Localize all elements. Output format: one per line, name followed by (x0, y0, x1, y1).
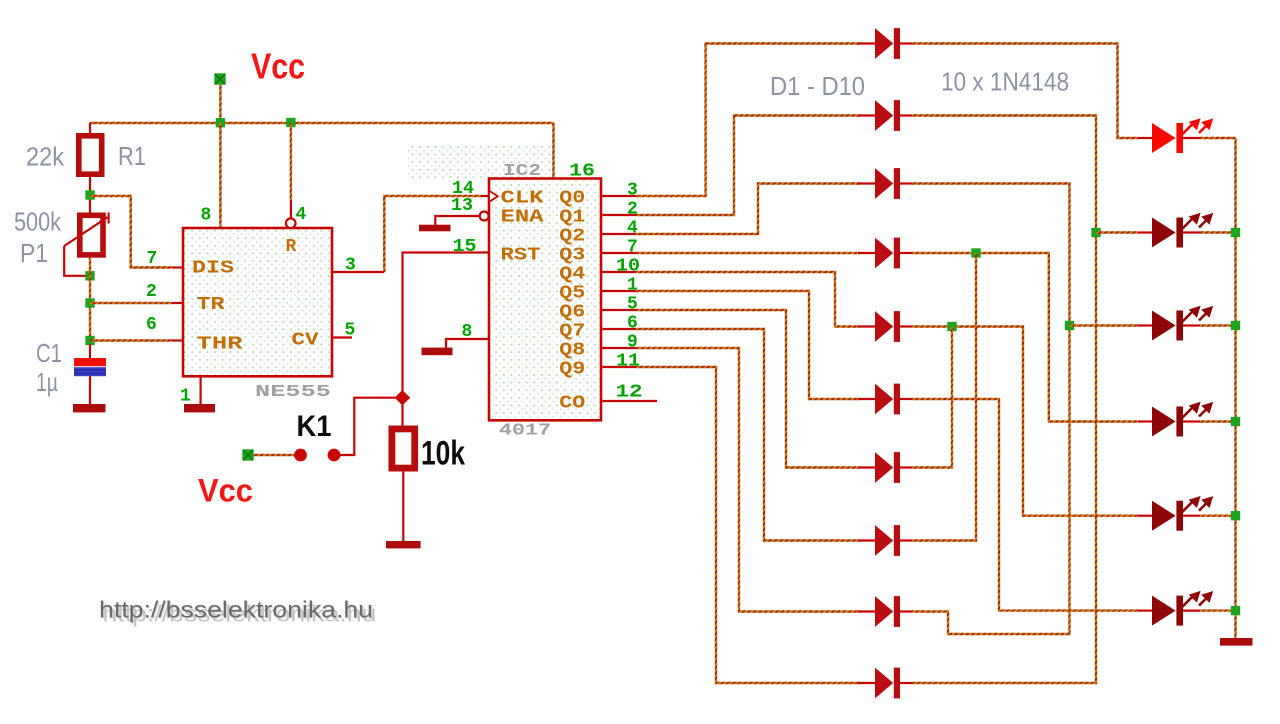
diode D10 cathode stub (900, 682, 912, 684)
wire P1 wiper to bottom node (64, 246, 86, 276)
svg-text:1µ: 1µ (36, 367, 58, 397)
wire C1 to ground (89, 376, 91, 404)
node junction bus LED2 row (1231, 228, 1240, 237)
wire K1 to RST junction (340, 398, 396, 455)
diode D10 anode stub (858, 682, 875, 684)
diode D1 cathode stub (900, 42, 912, 44)
svg-text:15: 15 (453, 237, 477, 257)
wire down to C1 plus plate (89, 344, 91, 358)
op 555 timer IC U1 box (183, 228, 332, 376)
svg-text:Q3: Q3 (559, 246, 585, 266)
diode D2 cathode stub (900, 114, 912, 116)
wire D5 to LED5 (912, 327, 1138, 516)
wire RST pin15 to junction and 10k (403, 253, 490, 427)
svg-text:4: 4 (627, 219, 638, 239)
wire Q6 to D7 (636, 310, 860, 468)
pin 13 inversion circle (4017 ENA) (480, 212, 489, 221)
node junction bus LED4 row (1231, 417, 1240, 426)
node junction LED3 riser (1065, 321, 1074, 330)
wire D3 and D9 to LED3 riser (912, 184, 1070, 635)
wire D1 to LED1 (912, 44, 1138, 139)
svg-text:R: R (286, 237, 297, 257)
svg-text:500k: 500k (14, 207, 62, 237)
wire TR pin2 red stub (172, 302, 183, 304)
LED2 cathode stub (1183, 231, 1200, 233)
svg-text:Q5: Q5 (559, 284, 585, 304)
diode D4 cathode stub (900, 252, 912, 254)
wire Q7 to D8 (636, 329, 860, 541)
wire LED4 cathode to bus (1200, 420, 1236, 422)
wire ENA pin13 to ground (435, 216, 479, 225)
svg-text:10k: 10k (421, 435, 465, 473)
LED4 cathode stub (1183, 420, 1200, 422)
svg-text:C1: C1 (36, 338, 62, 368)
diode D6 (875, 384, 900, 415)
wire LED1 cathode to bus (1200, 137, 1236, 139)
diode D8 cathode stub (900, 539, 912, 541)
pin 4 wire (555 reset) (290, 123, 292, 200)
svg-text:Vcc: Vcc (198, 473, 253, 509)
capacitor C1 top plate (74, 358, 106, 366)
pin stub Q2 (4017) (601, 233, 636, 235)
pin 8 wire (555 Vcc) (219, 123, 221, 228)
diode D9 (875, 596, 900, 627)
LED5 (1152, 496, 1213, 531)
wire Q2 to D3 (636, 184, 860, 235)
pin stub Q1 (4017) (601, 214, 636, 216)
svg-text:8: 8 (201, 206, 212, 226)
node junction TR row (85, 298, 94, 307)
diode D10 (875, 668, 900, 699)
pin stub Q4 (4017) (601, 271, 636, 273)
node junction D4/D8 row (971, 248, 980, 257)
LED3 anode stub (1138, 324, 1152, 326)
wire Q9 to D10 (636, 367, 860, 683)
wire THR pin6 horizontal (90, 339, 172, 341)
node junction bus LED3 row (1231, 321, 1240, 330)
wire LED5 cathode to bus (1200, 515, 1236, 517)
pin stub Q6 (4017) (601, 309, 636, 311)
wire 555 pin3 output (332, 271, 384, 273)
svg-text:Q4: Q4 (559, 265, 585, 285)
ground at LED bus (1220, 638, 1253, 646)
svg-text:DIS: DIS (192, 258, 234, 278)
node junction bus LED5 row (1231, 511, 1240, 520)
svg-text:Q2: Q2 (559, 227, 585, 247)
wire TR pin2 horizontal (90, 302, 172, 304)
node Vcc port (K1) (242, 449, 253, 460)
ground below 555 pin1 (184, 404, 215, 412)
LED2 anode stub (1138, 231, 1152, 233)
diode D7 (875, 452, 900, 483)
pin stub Q5 (4017) (601, 290, 636, 292)
wire Q3 to D4 (636, 252, 860, 254)
wire 555 output riser to 4017 CLK (384, 196, 481, 272)
wire 4017 pin8 to ground (446, 339, 489, 348)
diode D7 anode stub (858, 466, 875, 468)
pin stub Q9 (4017) (601, 366, 636, 368)
wire LED cathode ground bus (1234, 138, 1236, 638)
svg-text:12: 12 (616, 383, 643, 403)
diode D9 anode stub (858, 610, 875, 612)
wire D2 and D10 to LED2 riser (912, 116, 1096, 684)
diode D5 anode stub (858, 325, 875, 327)
node Vcc port (top) (214, 73, 225, 84)
diode D8 (875, 525, 900, 556)
wire 4017 pin16 riser from bus (552, 123, 554, 179)
svg-text:9: 9 (627, 333, 638, 353)
svg-text:10 x 1N4148: 10 x 1N4148 (941, 67, 1069, 97)
pin stub Q8 (4017) (601, 347, 636, 349)
diode D1 (875, 28, 900, 59)
svg-text:THR: THR (197, 335, 243, 355)
svg-text:Q6: Q6 (559, 303, 585, 323)
svg-text:CO: CO (559, 394, 585, 414)
diode D6 cathode stub (900, 398, 912, 400)
ground below C1 (73, 404, 106, 412)
wire node to DIS pin7 route (90, 196, 172, 268)
pin stub Q7 (4017) (601, 328, 636, 330)
svg-text:6: 6 (627, 314, 638, 334)
wire THR pin6 red stub (172, 339, 183, 341)
svg-text:http://bsselektronika.hu: http://bsselektronika.hu (99, 597, 373, 623)
LED1 (1152, 118, 1213, 153)
pin 14 clock chevron (4017) (489, 191, 498, 202)
wire LED6 cathode to bus (1200, 609, 1236, 611)
junction diamond RST node (395, 390, 411, 405)
node junction bus LED6 row (1231, 606, 1240, 615)
svg-text:CLK: CLK (501, 189, 544, 209)
wire CO pin12 stub (601, 400, 657, 402)
LED2 (1152, 213, 1213, 248)
wire Q8 to D9 (636, 348, 860, 612)
potentiometer P1 body (80, 215, 103, 255)
svg-text:4017: 4017 (499, 422, 551, 441)
capacitor C1 bottom plate (74, 367, 106, 376)
svg-text:D1 - D10: D1 - D10 (770, 71, 865, 101)
pin 4 inversion circle (555) (286, 218, 296, 228)
wire R1 bottom to node (89, 177, 91, 213)
wire Q0 to D1 (636, 44, 860, 197)
svg-text:5: 5 (627, 295, 638, 315)
diode D9 cathode stub (900, 610, 912, 612)
LED3 cathode stub (1183, 324, 1200, 326)
diode D1 anode stub (858, 42, 875, 44)
diode D2 anode stub (858, 114, 875, 116)
svg-text:6: 6 (146, 315, 157, 335)
pin 5 stub (555 CV) (332, 336, 352, 338)
diode D7 cathode stub (900, 466, 912, 468)
svg-text:13: 13 (451, 196, 473, 216)
node junction THR row (85, 336, 94, 345)
diode D3 (875, 168, 900, 199)
wire Q4 to D5 (636, 272, 860, 327)
svg-text:4: 4 (296, 205, 307, 225)
svg-text:3: 3 (627, 181, 638, 201)
diode D5 cathode stub (900, 325, 912, 327)
wire LED2 tap (1096, 231, 1138, 233)
wire Vcc bus horizontal (90, 122, 554, 124)
svg-text:TR: TR (197, 295, 225, 315)
svg-text:7: 7 (627, 238, 638, 258)
LED6 cathode stub (1183, 609, 1200, 611)
wire Q1 to D2 (636, 116, 860, 216)
svg-text:11: 11 (616, 352, 640, 372)
svg-text:Q0: Q0 (559, 189, 585, 209)
wire LED3 cathode to bus (1200, 324, 1236, 326)
wire Vcc port to K1 (254, 454, 295, 456)
switch K1 right contact (328, 449, 341, 462)
wire 555 pin1 to ground (200, 376, 202, 404)
LED5 anode stub (1138, 515, 1152, 517)
svg-text:2: 2 (627, 200, 638, 220)
svg-text:K1: K1 (297, 410, 332, 443)
svg-text:1: 1 (180, 387, 191, 407)
LED4 (1152, 402, 1213, 437)
diode D6 anode stub (858, 398, 875, 400)
ground below 10k (386, 541, 421, 548)
resistor R1 (79, 136, 102, 174)
wire D8 riser to D4 row (912, 253, 976, 541)
LED1 cathode stub (1183, 137, 1200, 139)
diode D3 anode stub (858, 182, 875, 184)
node junction below P1 (85, 271, 94, 280)
svg-text:P1: P1 (20, 238, 48, 268)
wire LED3 tap (1070, 324, 1139, 326)
LED6 anode stub (1138, 609, 1152, 611)
node junction bus / pin8 riser (216, 118, 225, 127)
LED4 anode stub (1138, 420, 1152, 422)
wire LED2 cathode to bus (1200, 231, 1236, 233)
wire R1 top stub (89, 123, 91, 133)
LED1 anode stub (1138, 137, 1152, 139)
diode D5 (875, 311, 900, 342)
wire left vertical P1 to C1 (89, 258, 91, 345)
wire D7 riser to D5 row (912, 327, 952, 468)
svg-text:NE555: NE555 (255, 383, 331, 402)
svg-text:RST: RST (501, 246, 541, 266)
diode D4 (875, 238, 900, 269)
wire Q5 to D6 (636, 291, 860, 399)
svg-text:Q1: Q1 (559, 208, 585, 228)
svg-text:R1: R1 (118, 141, 146, 171)
LED3 (1152, 306, 1213, 341)
node junction D5/D7 row (947, 322, 956, 331)
switch K1 left contact (294, 449, 307, 462)
diode D3 cathode stub (900, 182, 912, 184)
svg-text:7: 7 (147, 249, 158, 269)
svg-text:ENA: ENA (501, 208, 544, 228)
dotted region above IC2 (407, 145, 554, 179)
diode D8 anode stub (858, 539, 875, 541)
ground at 4017 pin8 (422, 348, 453, 356)
svg-text:22k: 22k (26, 142, 65, 172)
wire D6 to LED6 (912, 399, 1138, 611)
ground at ENA pin13 (419, 225, 451, 232)
svg-text:CV: CV (292, 331, 319, 351)
svg-text:Q8: Q8 (559, 341, 585, 361)
wire 10k to ground (402, 472, 404, 542)
potentiometer P1 wiper arrow (64, 217, 107, 246)
svg-text:1: 1 (627, 276, 638, 296)
svg-text:2: 2 (146, 282, 157, 302)
pin stub Q0 (4017) (601, 195, 636, 197)
pin stub Q3 (4017) (601, 252, 636, 254)
wire D4 to LED4 (912, 253, 1138, 422)
svg-text:Q7: Q7 (559, 322, 585, 342)
wire DIS pin7 red stub (172, 266, 183, 268)
resistor R2 10k (392, 429, 415, 468)
counter 4017 IC2 box (489, 179, 601, 421)
wire Vcc stub down to bus (219, 85, 221, 124)
node junction below R1 (85, 190, 94, 199)
diode D2 (875, 100, 900, 131)
svg-text:Vcc: Vcc (251, 46, 305, 87)
potentiometer P1 wiper tick (107, 213, 109, 224)
node junction LED2 riser (1091, 228, 1100, 237)
diode D4 anode stub (858, 252, 875, 254)
svg-text:10: 10 (616, 257, 640, 277)
node junction bus / pin4 riser (286, 118, 295, 127)
LED5 cathode stub (1183, 515, 1200, 517)
svg-text:Q9: Q9 (559, 360, 585, 380)
LED6 (1152, 591, 1213, 626)
